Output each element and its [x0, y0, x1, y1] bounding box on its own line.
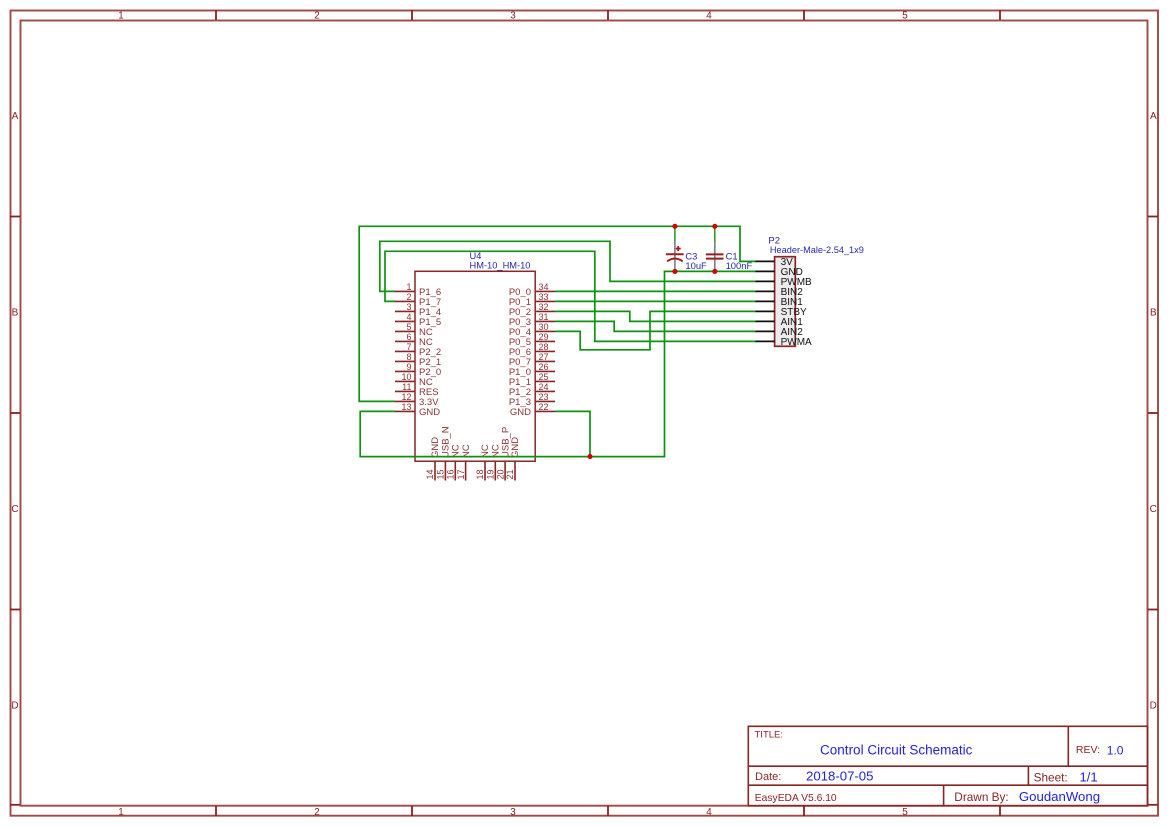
U4 pin 6 (NC): [395, 332, 433, 348]
U4 pin 5 (NC): [395, 322, 433, 338]
svg-text:11: 11: [402, 382, 411, 392]
svg-text:3: 3: [510, 11, 516, 22]
P2 pin 6 (STBY): [755, 307, 807, 318]
P2 pin 4 (BIN2): [755, 287, 803, 298]
U4 pin 34 (P0_0): [509, 282, 555, 298]
P2 pin 1 (3V): [755, 257, 793, 268]
U4 pin 20 (USB_P) bottom: [495, 427, 511, 481]
svg-text:23: 23: [539, 392, 549, 402]
title block texts: [755, 730, 1101, 804]
U4 pin 22 (GND): [510, 402, 555, 418]
U4 pin 15 (USB_N) bottom: [436, 426, 452, 480]
U4 pin 31 (P0_3): [509, 312, 555, 328]
U4 value HM-10_HM-10: [470, 261, 531, 271]
svg-text:1/1: 1/1: [1080, 770, 1098, 785]
U4 pin 2 (P1_7): [395, 292, 441, 308]
svg-text:21: 21: [505, 469, 515, 479]
svg-text:Date:: Date:: [755, 771, 781, 783]
svg-text:1: 1: [118, 11, 123, 22]
svg-text:10uF: 10uF: [685, 260, 707, 271]
wire net BIN2: U4 pin34 to P2 BIN2: [555, 290, 756, 292]
svg-text:U4: U4: [470, 251, 482, 261]
P2 pin 3 (PWMB): [755, 277, 812, 288]
svg-text:16: 16: [446, 469, 456, 479]
svg-text:29: 29: [539, 332, 549, 342]
svg-text:8: 8: [406, 352, 411, 362]
wire net 3.3V: U4 pin12 to P2 3V (top rail): [359, 226, 755, 401]
U4 pin 7 (P2_2): [395, 342, 441, 358]
junction dot C3 top: [672, 224, 677, 229]
U4 reference designator: [470, 251, 482, 261]
svg-text:C: C: [1150, 504, 1157, 515]
P2 pin 2 (GND): [755, 267, 803, 278]
svg-text:TITLE:: TITLE:: [755, 730, 784, 741]
U4 pin 23 (P1_3): [509, 392, 555, 408]
svg-text:C: C: [11, 504, 18, 515]
U4 pin 25 (P1_1): [509, 372, 555, 388]
connector P2: [775, 257, 796, 347]
P2 pin 7 (AIN1): [755, 317, 803, 328]
U4 pin 11 (RES): [395, 382, 439, 398]
P2 pin 5 (BIN1): [755, 297, 803, 308]
P2 pin 9 (PWMA): [755, 337, 812, 348]
svg-text:5: 5: [902, 11, 908, 22]
U4 pin 21 (GND) bottom: [505, 437, 521, 481]
svg-text:A: A: [1150, 111, 1157, 122]
wire net GND: U4 pin22 branch: [555, 411, 590, 456]
svg-text:2018-07-05: 2018-07-05: [806, 769, 873, 784]
svg-text:1.0: 1.0: [1107, 743, 1124, 757]
svg-text:14: 14: [425, 469, 435, 479]
svg-text:17: 17: [456, 469, 466, 479]
svg-text:7: 7: [406, 342, 411, 352]
svg-text:15: 15: [436, 469, 446, 479]
svg-text:5: 5: [902, 807, 908, 818]
svg-text:2: 2: [314, 11, 319, 22]
svg-text:32: 32: [539, 302, 549, 312]
U4 pin 14 (GND) bottom: [425, 437, 441, 481]
U4 pin 17 (NC) bottom: [456, 444, 472, 480]
svg-text:A: A: [12, 111, 19, 122]
svg-text:27: 27: [539, 352, 549, 362]
U4 pin 16 (NC) bottom: [446, 444, 462, 480]
junction dot C1 bottom: [712, 269, 717, 274]
svg-text:GND: GND: [510, 437, 521, 458]
svg-text:13: 13: [401, 402, 411, 412]
U4 pin 30 (P0_4): [509, 322, 555, 338]
wire net PWMA: U4 pin2 to P2 PWMA: [385, 251, 756, 341]
svg-text:28: 28: [539, 342, 549, 352]
svg-text:3: 3: [510, 807, 516, 818]
svg-text:26: 26: [539, 362, 549, 372]
svg-text:2: 2: [406, 292, 411, 302]
U4 pin 24 (P1_2): [509, 382, 555, 398]
svg-text:25: 25: [539, 372, 549, 382]
U4 pin 10 (NC): [395, 372, 433, 388]
junction dot C1 top: [712, 224, 717, 229]
svg-text:5: 5: [406, 322, 411, 332]
U4 pin 27 (P0_7): [509, 352, 555, 368]
U4 pin 3 (P1_4): [395, 302, 441, 318]
U4 pin 26 (P1_0): [509, 362, 555, 378]
svg-text:1: 1: [118, 807, 123, 818]
U4 pin 33 (P0_1): [509, 292, 555, 308]
svg-text:Sheet:: Sheet:: [1034, 770, 1068, 784]
P2 pin 8 (AIN2): [755, 327, 803, 338]
capacitor C1: [706, 226, 724, 270]
svg-text:GND: GND: [419, 407, 440, 418]
svg-text:30: 30: [539, 322, 549, 332]
title block: [748, 726, 1147, 806]
P2 value Header-Male-2.54_1x9: [770, 245, 864, 255]
svg-text:D: D: [11, 700, 18, 711]
U4 pin 12 (3.3V): [395, 392, 439, 408]
svg-text:B: B: [1150, 307, 1157, 318]
svg-text:19: 19: [486, 469, 496, 479]
svg-text:100nF: 100nF: [726, 260, 753, 271]
svg-text:6: 6: [406, 332, 411, 342]
junction dot GND bottom wire: [587, 454, 592, 459]
U4 pin 13 (GND): [395, 402, 440, 418]
C1 labels: [726, 251, 753, 271]
svg-text:B: B: [12, 307, 19, 318]
svg-text:34: 34: [539, 282, 549, 292]
svg-text:HM-10_HM-10: HM-10_HM-10: [470, 261, 531, 271]
svg-text:12: 12: [401, 392, 411, 402]
U4 pin 19 (NC) bottom: [486, 444, 502, 480]
junction dot C3 bottom: [672, 269, 677, 274]
svg-text:PWMA: PWMA: [781, 337, 812, 348]
wire net AIN1: U4 pin32 to P2 AIN1: [555, 311, 756, 321]
svg-text:Control Circuit Schematic: Control Circuit Schematic: [820, 743, 973, 758]
svg-text:Drawn By:: Drawn By:: [954, 790, 1008, 804]
svg-text:GoudanWong: GoudanWong: [1019, 789, 1100, 804]
IC U4: [415, 271, 535, 461]
svg-text:GND: GND: [430, 437, 441, 458]
U4 pin 29 (P0_5): [509, 332, 555, 348]
wire net STBY: U4 pin30 to P2 STBY: [555, 311, 756, 349]
svg-text:24: 24: [539, 382, 549, 392]
svg-text:31: 31: [539, 312, 549, 322]
svg-text:33: 33: [539, 292, 549, 302]
wire net AIN2: U4 pin31 to P2 AIN2: [555, 321, 756, 331]
U4 pin 8 (P2_1): [395, 352, 441, 368]
svg-text:GND: GND: [510, 407, 531, 418]
svg-text:4: 4: [706, 11, 712, 22]
svg-text:20: 20: [495, 469, 505, 479]
wire net BIN1: U4 pin33 to P2 BIN1: [555, 300, 756, 302]
svg-text:4: 4: [706, 807, 712, 818]
U4 pin 28 (P0_6): [509, 342, 555, 358]
svg-text:2: 2: [314, 807, 319, 818]
capacitor C3: [666, 226, 684, 270]
P2 reference designator: [768, 236, 780, 247]
svg-text:REV:: REV:: [1076, 744, 1100, 756]
U4 pin 1 (P1_6): [395, 282, 441, 298]
svg-text:3: 3: [406, 302, 411, 312]
wire net PWMB: U4 pin1 to P2 PWMB: [380, 241, 756, 291]
svg-text:18: 18: [475, 469, 485, 479]
svg-text:1: 1: [406, 282, 411, 292]
U4 pin 4 (P1_5): [395, 312, 441, 328]
svg-text:10: 10: [401, 372, 411, 382]
svg-text:4: 4: [406, 312, 411, 322]
svg-text:9: 9: [406, 362, 411, 372]
U4 pin 32 (P0_2): [509, 302, 555, 318]
svg-text:22: 22: [539, 402, 549, 412]
svg-text:D: D: [1150, 700, 1157, 711]
U4 pin 18 (NC) bottom: [475, 444, 491, 480]
svg-text:EasyEDA V5.6.10: EasyEDA V5.6.10: [755, 793, 837, 804]
U4 pin 9 (P2_0): [395, 362, 441, 378]
C3 labels: [685, 251, 707, 271]
wire net GND: U4 pin13 to GND rail and P2 GND: [360, 271, 755, 456]
svg-text:Header-Male-2.54_1x9: Header-Male-2.54_1x9: [770, 245, 864, 255]
